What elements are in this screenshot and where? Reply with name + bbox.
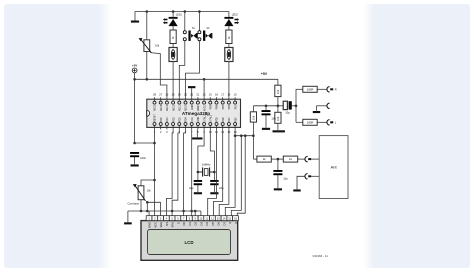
pin 7 of LCD xyxy=(181,216,187,226)
LCD screen xyxy=(148,230,231,255)
wire K5 to ground xyxy=(297,176,305,189)
supply +5V symbol xyxy=(132,63,137,72)
svg-text:PD5: PD5 xyxy=(217,117,219,122)
wire +5V rail xyxy=(135,78,278,80)
node wiper junction xyxy=(146,201,149,204)
pin 5 of IC1 xyxy=(178,117,182,134)
wire to ground xyxy=(134,12,136,21)
LCD module body xyxy=(141,221,238,261)
svg-text:RESET: RESET xyxy=(155,114,157,122)
LED LED2 xyxy=(224,14,239,27)
node on ground bus xyxy=(146,210,149,213)
wire bus to LCD pin 1 xyxy=(148,211,150,216)
wire S2 to pin 23 xyxy=(186,41,200,98)
wire xyxy=(265,115,267,128)
wire to antenna box xyxy=(311,158,319,160)
pin 22 of IC1 xyxy=(190,93,194,110)
wire xyxy=(213,185,215,192)
wire xyxy=(172,44,174,48)
capacitor C4 xyxy=(262,110,271,115)
wire pin 4 to LCD pin 4 xyxy=(166,129,173,215)
svg-text:10k: 10k xyxy=(276,116,280,121)
pin 23 of IC1 xyxy=(184,93,188,111)
ground K3 xyxy=(313,111,320,113)
wire S1 to pin 24 xyxy=(179,41,185,98)
node pin 6 line on bus xyxy=(182,210,185,213)
resistor R9 xyxy=(283,156,297,162)
resistor R3 xyxy=(275,85,281,96)
svg-text:Ant: Ant xyxy=(331,165,338,170)
wire to LCD pin 16 xyxy=(237,136,245,216)
wire xyxy=(198,12,200,31)
wire pin 14 to RF block xyxy=(235,129,253,135)
connector K2 left channel xyxy=(327,120,333,125)
wire xyxy=(277,97,279,113)
svg-text:PB2: PB2 xyxy=(229,104,231,109)
svg-text:D4: D4 xyxy=(205,221,209,225)
svg-text:RS: RS xyxy=(165,222,169,226)
connector K3 common xyxy=(327,103,330,108)
svg-text:GND: GND xyxy=(198,116,200,121)
wire P2 bottom to ground bus xyxy=(140,200,142,211)
pin 16 of IC1 xyxy=(227,93,231,110)
wire xyxy=(277,159,279,170)
pin 25 of IC1 xyxy=(172,93,176,111)
wire pin 8 to ground xyxy=(196,129,198,137)
svg-text:XTAL2: XTAL2 xyxy=(210,114,213,122)
svg-text:PD4: PD4 xyxy=(186,117,188,122)
svg-text:PB1: PB1 xyxy=(235,104,237,109)
wire pin 14 to LCD pin 14 xyxy=(225,136,235,216)
node AVCC tap xyxy=(203,78,206,81)
wire xyxy=(197,185,199,192)
svg-text:PB5: PB5 xyxy=(211,104,213,109)
ground C6 xyxy=(274,188,282,190)
pin 2 of LCD xyxy=(152,216,158,228)
svg-text:+5V: +5V xyxy=(261,72,268,76)
wire to pin 20 xyxy=(203,79,205,97)
pin 12 of IC1 xyxy=(221,117,225,134)
wire pin 7 to LCD pin 8 xyxy=(191,129,193,215)
pin 9 of LCD xyxy=(192,216,198,226)
node junction on top rail xyxy=(184,10,187,13)
wire xyxy=(252,106,254,112)
wire xyxy=(172,12,174,17)
svg-text:VCC: VCC xyxy=(192,117,194,122)
pin 27 of IC1 xyxy=(159,93,163,111)
wire bus end to LCD pin 10 xyxy=(200,211,202,216)
svg-text:LCD: LCD xyxy=(184,240,193,245)
svg-text:D5: D5 xyxy=(211,221,215,225)
op-amp IC1 ATmega328P body xyxy=(147,99,241,127)
svg-text:ADC4: ADC4 xyxy=(160,104,163,111)
pushbutton S2 xyxy=(198,27,213,41)
pin 8 of IC1 xyxy=(196,116,200,133)
wire +5V down xyxy=(134,73,136,143)
svg-text:22p: 22p xyxy=(219,186,224,190)
ground bus bar xyxy=(124,222,132,224)
ground top-left xyxy=(131,21,139,23)
ground C2 xyxy=(194,192,202,194)
wire xyxy=(228,26,230,30)
node +5V tap xyxy=(133,78,136,81)
node pin 7 line on bus xyxy=(190,210,193,213)
wire xyxy=(317,88,326,90)
node xyxy=(133,142,136,145)
svg-text:LED2: LED2 xyxy=(232,14,239,17)
ground pin 22 xyxy=(188,86,195,88)
wire top ground rail xyxy=(135,11,229,13)
connector K5 antenna ground xyxy=(305,174,311,179)
node on ground bus xyxy=(194,210,197,213)
pin 13 of IC1 xyxy=(227,117,231,134)
pin 21 of IC1 xyxy=(196,93,200,111)
node C6 tap xyxy=(277,158,280,161)
wire to contrast pot xyxy=(141,180,155,186)
trimmer P1 xyxy=(139,38,152,53)
svg-text:PB3: PB3 xyxy=(223,104,225,109)
svg-text:10k: 10k xyxy=(276,89,280,94)
svg-text:ADC0: ADC0 xyxy=(185,104,188,111)
svg-text:E: E xyxy=(176,222,180,224)
svg-text:D2: D2 xyxy=(194,221,198,225)
svg-text:PD6: PD6 xyxy=(223,117,225,122)
wire pin 5 to LCD pin 5 xyxy=(172,129,179,215)
pin 4 of LCD xyxy=(164,216,170,226)
svg-text:PD1: PD1 xyxy=(167,117,169,122)
wire VCC to pin 1 column xyxy=(135,142,155,144)
wire headphone feed xyxy=(295,89,297,122)
pin 5 of LCD xyxy=(169,216,175,228)
left page panel xyxy=(4,4,111,268)
wire P1 wiper to pin 26 xyxy=(150,53,167,98)
connector K4 antenna xyxy=(305,156,311,161)
svg-text:PD3: PD3 xyxy=(180,117,182,122)
svg-text:PD7: PD7 xyxy=(229,117,231,122)
wire xyxy=(253,158,257,160)
wire ground bus xyxy=(128,210,201,212)
wire +5V to R3 xyxy=(277,79,279,85)
wire R5 down xyxy=(252,122,254,159)
svg-text:PB0: PB0 xyxy=(235,117,237,122)
wire xyxy=(298,158,305,160)
wire xyxy=(127,211,129,222)
pin 26 of IC1 xyxy=(165,93,169,111)
svg-text:ADC1: ADC1 xyxy=(179,104,182,111)
resistor R1 xyxy=(170,30,176,44)
svg-text:GND: GND xyxy=(148,222,152,228)
wire xyxy=(228,44,230,48)
svg-text:10µ: 10µ xyxy=(285,111,290,115)
svg-text:040184 - 11: 040184 - 11 xyxy=(313,254,329,258)
wire wiper junction to LCD pin 3 xyxy=(160,202,162,215)
pin 28 of IC1 xyxy=(153,93,157,111)
crystal X1 16MHz xyxy=(198,162,215,176)
wire xyxy=(296,121,303,123)
capacitor C1 xyxy=(130,152,146,160)
wire K3 ground lead xyxy=(317,105,327,107)
resistor R8 xyxy=(257,156,271,162)
wire pin 10 to crystal xyxy=(210,129,214,172)
wire to LCD pin 15 xyxy=(231,136,241,216)
pin 1 of IC1 xyxy=(153,114,157,134)
svg-text:D0: D0 xyxy=(182,221,186,225)
svg-text:D6: D6 xyxy=(217,221,221,225)
pin 16 of LCD xyxy=(233,216,239,224)
wire xyxy=(228,12,230,17)
ground C4 xyxy=(262,128,270,130)
ground R4 xyxy=(273,130,285,132)
trimmer P2 contrast xyxy=(133,184,146,201)
pin 1 of LCD xyxy=(146,216,152,228)
pin 15 of LCD xyxy=(227,216,233,224)
node C4 tap xyxy=(265,105,268,108)
svg-text:10k: 10k xyxy=(251,115,255,120)
node divider xyxy=(277,105,280,108)
svg-text:VCC: VCC xyxy=(153,222,157,228)
pin 13 of LCD xyxy=(215,216,221,226)
wire LED2 chain to pin 16 xyxy=(228,62,230,98)
capacitor C6 xyxy=(273,170,282,175)
svg-text:ADC5: ADC5 xyxy=(154,104,157,111)
wire xyxy=(292,105,296,107)
pin 8 of LCD xyxy=(187,216,193,226)
svg-text:VEE: VEE xyxy=(159,222,163,228)
wire wiper to bus xyxy=(146,202,148,211)
wire xyxy=(316,106,318,111)
pin 12 of LCD xyxy=(210,216,216,226)
pin 3 of IC1 xyxy=(165,117,169,134)
wire xyxy=(277,175,279,188)
wire xyxy=(172,26,174,30)
pin 14 of LCD xyxy=(221,216,227,226)
node crystal right xyxy=(213,171,216,174)
svg-text:R/W: R/W xyxy=(171,222,175,228)
pin 2 of IC1 xyxy=(159,117,163,134)
node xyxy=(295,105,298,108)
wire P1 to +5V rail xyxy=(146,52,148,80)
pin 17 of IC1 xyxy=(221,93,225,110)
svg-text:Contrast: Contrast xyxy=(127,202,139,206)
wire pin 6 to LCD pin 7 xyxy=(184,129,186,215)
svg-text:+5V: +5V xyxy=(132,63,137,67)
wire P2 wiper to pin 2 column xyxy=(146,201,160,204)
pin 11 of IC1 xyxy=(215,117,219,134)
wire xyxy=(296,88,303,90)
resistor R2 xyxy=(226,30,232,44)
svg-text:10k: 10k xyxy=(155,43,160,47)
connector K1 right channel xyxy=(327,87,333,92)
pin 10 of IC1 xyxy=(209,114,213,134)
wire divider junction row xyxy=(253,105,278,107)
wire pin 9 to crystal xyxy=(198,129,204,172)
wire pin 12 to LCD pin 12 xyxy=(214,129,223,215)
wire xyxy=(278,105,284,107)
wire xyxy=(317,121,326,123)
svg-text:LED1: LED1 xyxy=(176,14,183,17)
resistor R7 xyxy=(303,119,317,125)
pin 24 of IC1 xyxy=(178,93,182,111)
svg-text:PB4: PB4 xyxy=(217,104,219,109)
pin 15 of IC1 xyxy=(234,93,238,110)
LED LED1 xyxy=(163,14,183,27)
device L2 xyxy=(225,48,233,62)
wire xyxy=(265,106,267,111)
node junction on top rail xyxy=(172,10,175,13)
ground pin 8 xyxy=(192,137,202,139)
resistor R5 xyxy=(250,112,256,122)
svg-text:K: K xyxy=(234,222,238,224)
wire xyxy=(184,12,186,31)
svg-text:10n: 10n xyxy=(271,117,276,121)
wire xyxy=(146,12,148,40)
pin 4 of IC1 xyxy=(172,117,176,134)
svg-text:PD0: PD0 xyxy=(161,117,163,122)
capacitor C2 xyxy=(194,180,202,185)
node junction on top rail xyxy=(198,10,201,13)
wire xyxy=(277,123,279,130)
svg-text:XTAL1: XTAL1 xyxy=(203,114,206,122)
wire to antenna box xyxy=(311,175,319,177)
svg-text:100n: 100n xyxy=(140,156,146,160)
node xyxy=(153,179,156,182)
svg-text:100R: 100R xyxy=(307,87,314,91)
pin 18 of IC1 xyxy=(215,93,219,110)
pin 20 of IC1 xyxy=(203,93,207,112)
right page panel xyxy=(363,4,470,268)
svg-text:A: A xyxy=(228,222,232,224)
wire xyxy=(134,157,136,164)
node xyxy=(153,142,156,145)
antenna module box xyxy=(319,136,348,199)
wire pin 1 down xyxy=(154,129,156,180)
node pin 14 branch xyxy=(234,134,237,137)
wire pin 11 to LCD pin 11 xyxy=(208,129,217,215)
pin 6 of LCD xyxy=(175,216,181,224)
wire xyxy=(271,158,283,160)
ground C1 xyxy=(131,164,139,166)
svg-text:D7: D7 xyxy=(222,221,226,225)
wire xyxy=(213,172,215,180)
wire LED1 chain to pin 25 xyxy=(172,62,174,98)
pin 19 of IC1 xyxy=(209,93,213,110)
svg-text:R: R xyxy=(335,87,337,91)
ground C3 xyxy=(210,192,218,194)
capacitor C3 xyxy=(210,180,218,185)
wire to LCD pin 2 xyxy=(154,180,156,216)
svg-text:16MHz: 16MHz xyxy=(202,162,211,166)
pin 9 of IC1 xyxy=(203,114,207,134)
pin 3 of LCD xyxy=(158,216,164,228)
pin 14 of IC1 xyxy=(234,117,238,134)
node on ground bus xyxy=(140,210,143,213)
resistor R6 xyxy=(303,86,317,92)
svg-text:100R: 100R xyxy=(307,120,314,124)
svg-text:D3: D3 xyxy=(199,221,203,225)
pin 11 of LCD xyxy=(204,216,210,226)
pin 7 of IC1 xyxy=(190,117,194,134)
svg-text:PD2: PD2 xyxy=(173,117,175,122)
svg-text:AVCC: AVCC xyxy=(203,105,206,112)
node junction on top rail xyxy=(146,10,149,13)
wire xyxy=(197,172,199,180)
node xyxy=(244,134,247,137)
svg-text:10p: 10p xyxy=(283,176,288,180)
svg-text:GND: GND xyxy=(192,105,194,110)
pin 10 of LCD xyxy=(198,216,204,226)
wire bus to LCD pin 9 xyxy=(194,211,196,216)
pin 6 of IC1 xyxy=(184,117,188,134)
wire pin 13 to LCD pin 13 xyxy=(219,129,229,215)
device L1 xyxy=(169,48,177,62)
node xyxy=(240,134,243,137)
svg-text:AREF: AREF xyxy=(197,104,200,111)
wire pin 22 to ground xyxy=(191,88,193,97)
capacitor C5 electrolytic 10u xyxy=(283,101,292,114)
svg-text:D1: D1 xyxy=(188,221,192,225)
pushbutton S1 xyxy=(183,27,198,41)
node P1 bottom on +5V rail xyxy=(146,78,149,81)
ground K5 xyxy=(293,189,300,191)
svg-text:ADC3: ADC3 xyxy=(166,104,169,111)
resistor R4 xyxy=(275,112,281,123)
node crystal left xyxy=(197,171,200,174)
svg-text:ADC2: ADC2 xyxy=(172,104,175,111)
node on ground bus xyxy=(171,210,174,213)
node xyxy=(252,134,255,137)
svg-text:22p: 22p xyxy=(189,186,194,190)
